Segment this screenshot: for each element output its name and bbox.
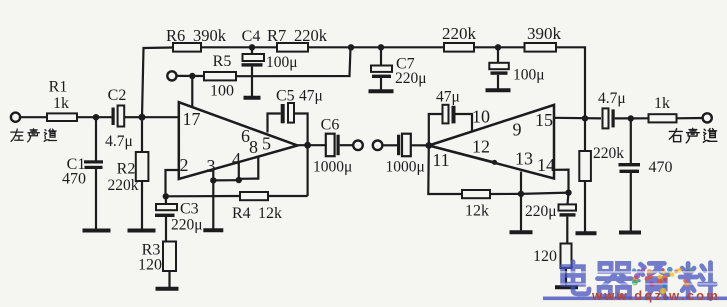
- watermark underline: [543, 297, 727, 301]
- label 220μ: [525, 203, 557, 220]
- label 470: [649, 159, 673, 176]
- pin label 8: [249, 137, 258, 157]
- node (junction): [565, 189, 571, 195]
- ground: [510, 230, 533, 234]
- pin label 2: [180, 155, 189, 175]
- wire: [177, 75, 205, 77]
- wire: [631, 117, 649, 119]
- ground: [203, 228, 223, 232]
- resistor 390k (supply): [525, 43, 557, 52]
- wire: [268, 145, 308, 196]
- node (junction): [249, 44, 255, 50]
- ground: [619, 231, 641, 235]
- svg-text:220k: 220k: [593, 145, 624, 162]
- svg-text:C5: C5: [276, 88, 295, 105]
- ground: [369, 89, 394, 93]
- svg-text:470: 470: [649, 159, 673, 176]
- resistor R6: [173, 43, 201, 52]
- watermark speckles: [632, 267, 691, 294]
- svg-text:1000μ: 1000μ: [386, 159, 425, 176]
- svg-text:R1: R1: [49, 79, 68, 96]
- wire: [294, 114, 308, 146]
- label 12k: [465, 203, 489, 220]
- wire: [428, 146, 462, 195]
- terminal: left channel input: [11, 113, 20, 122]
- node (junction): [495, 44, 501, 50]
- label 右声道 (right channel): [669, 128, 717, 143]
- capacitor C3: [155, 196, 177, 241]
- capacitor C4: [242, 47, 265, 96]
- terminal: right channel output: [373, 141, 383, 151]
- svg-text:www.dqzlw.com: www.dqzlw.com: [591, 288, 720, 303]
- resistor R4: [240, 192, 268, 200]
- capacitor 100μ (supply): [489, 47, 509, 88]
- wire: pin 4 stub: [238, 162, 240, 181]
- pin label 13: [515, 149, 533, 169]
- svg-text:100: 100: [210, 83, 234, 100]
- node (junction): [425, 142, 432, 149]
- pin label 1: [183, 109, 192, 129]
- svg-text:47μ: 47μ: [436, 89, 460, 106]
- label 1k: [654, 95, 670, 112]
- resistor 1k (right): [649, 114, 703, 122]
- svg-text:220k: 220k: [294, 26, 328, 45]
- svg-text:5: 5: [262, 134, 271, 154]
- pin label 3: [207, 156, 216, 176]
- label 100: [210, 83, 234, 100]
- capacitor C5: [281, 103, 294, 123]
- ground: [156, 287, 179, 291]
- wire: pin 2: [166, 170, 179, 196]
- svg-text:220μ: 220μ: [395, 70, 427, 87]
- svg-text:C3: C3: [180, 201, 199, 218]
- wire: [490, 193, 521, 195]
- wire: [298, 144, 326, 146]
- wire: pin 14: [554, 170, 569, 193]
- label 100μ: [513, 67, 545, 84]
- node (junction): [236, 177, 242, 183]
- label C2: [108, 87, 127, 104]
- label 220k: [593, 145, 624, 162]
- wire: [95, 117, 97, 160]
- pin label 14: [537, 155, 555, 175]
- svg-text:1k: 1k: [53, 95, 69, 112]
- svg-text:8: 8: [249, 137, 258, 157]
- svg-text:1k: 1k: [654, 95, 670, 112]
- capacitor C2: [112, 106, 141, 127]
- wire: [236, 47, 351, 76]
- svg-text:R2: R2: [117, 161, 136, 178]
- svg-text:2: 2: [180, 155, 189, 175]
- svg-text:1000μ: 1000μ: [313, 159, 352, 176]
- ground: [128, 229, 156, 233]
- node (junction): [163, 193, 169, 199]
- wire: [308, 46, 444, 48]
- label R1: [49, 79, 68, 96]
- label 4.7μ: [598, 90, 626, 107]
- node (junction): [189, 73, 195, 79]
- svg-text:220μ: 220μ: [171, 217, 203, 234]
- capacitor 1000μ (right): [397, 134, 429, 157]
- svg-text:15: 15: [535, 110, 553, 130]
- terminal: right channel input: [703, 113, 712, 122]
- capacitor 220μ (right): [559, 193, 577, 244]
- label C1: [67, 156, 86, 173]
- svg-text:12: 12: [472, 137, 490, 157]
- svg-text:R6: R6: [166, 26, 185, 45]
- node (junction): [378, 44, 384, 50]
- wire: [382, 144, 397, 146]
- wire: [521, 193, 569, 194]
- node (junction): [628, 115, 634, 121]
- label R3: [142, 242, 161, 259]
- label C7: [396, 56, 415, 73]
- svg-text:4.7μ: 4.7μ: [105, 133, 133, 150]
- svg-text:220μ: 220μ: [525, 203, 557, 220]
- svg-text:1: 1: [183, 109, 192, 129]
- svg-text:7: 7: [192, 109, 201, 129]
- pin label 11: [432, 150, 449, 170]
- label R5: [213, 53, 232, 70]
- resistor 120 (right): [561, 244, 572, 286]
- label 100μ: [266, 54, 298, 71]
- label 220k: [108, 177, 139, 194]
- label R7 220k: [267, 26, 328, 45]
- ground: [244, 96, 261, 100]
- svg-text:120: 120: [138, 257, 162, 274]
- resistor 12k (right): [462, 190, 490, 198]
- label C3: [180, 201, 199, 218]
- capacitor 4.7μ (right): [603, 108, 615, 128]
- wire: [142, 48, 173, 118]
- node (junction): [348, 44, 354, 50]
- label 470: [62, 171, 86, 188]
- wire: [142, 116, 179, 118]
- wire: [77, 116, 112, 118]
- ground: [576, 231, 597, 235]
- pin label 4: [232, 149, 241, 169]
- pin label 10: [472, 107, 490, 127]
- node A (junction): [93, 114, 99, 120]
- svg-text:47μ: 47μ: [299, 88, 323, 105]
- svg-text:100μ: 100μ: [266, 54, 298, 71]
- ground: [486, 88, 511, 92]
- label R2: [117, 161, 136, 178]
- svg-text:220k: 220k: [108, 177, 139, 194]
- label 1000μ: [386, 159, 425, 176]
- resistor R1: [47, 113, 77, 121]
- label 47μ: [436, 89, 460, 106]
- svg-text:4.7μ: 4.7μ: [598, 90, 626, 107]
- node (junction): [304, 142, 311, 149]
- wire: [556, 47, 585, 118]
- wire: [520, 194, 522, 231]
- op-amp A1 (pins 1-8): [179, 102, 298, 179]
- label C5 47μ: [276, 88, 323, 105]
- capacitor 470 (right): [619, 119, 641, 232]
- svg-text:390k: 390k: [527, 24, 562, 43]
- wire: [456, 114, 473, 132]
- label 220μ: [171, 217, 203, 234]
- label 120: [533, 248, 557, 265]
- svg-text:11: 11: [432, 150, 449, 170]
- wire: pin 13 stub: [520, 172, 522, 194]
- label 220μ: [395, 70, 427, 87]
- svg-text:C6: C6: [321, 117, 340, 134]
- resistor R2: [136, 117, 149, 229]
- svg-text:120: 120: [533, 248, 557, 265]
- wire: pin 15 output: [554, 117, 601, 120]
- terminal: left channel output: [353, 141, 363, 151]
- pin label 5: [262, 134, 271, 154]
- capacitor C7: [371, 47, 392, 89]
- svg-text:R4: R4: [232, 205, 251, 222]
- svg-text:13: 13: [515, 149, 533, 169]
- capacitor C1: [84, 160, 103, 229]
- terminal: supply input: [167, 71, 176, 80]
- ground: [555, 285, 578, 289]
- wire: [268, 114, 281, 133]
- wire: [615, 117, 631, 119]
- label 120: [138, 257, 162, 274]
- label C6: [321, 117, 340, 134]
- resistor 220k (supply): [444, 43, 474, 52]
- wire: [166, 195, 240, 198]
- node (junction): [210, 177, 216, 183]
- svg-text:R5: R5: [213, 53, 232, 70]
- pin label 9: [513, 120, 522, 140]
- wire: [429, 114, 443, 146]
- svg-text:14: 14: [537, 155, 555, 175]
- capacitor C6: [326, 134, 353, 157]
- wire: [213, 179, 239, 181]
- resistor 220k (right): [579, 118, 591, 231]
- svg-text:C4: C4: [242, 28, 261, 45]
- node (junction): [582, 115, 588, 121]
- svg-text:C2: C2: [108, 87, 127, 104]
- wire: [20, 116, 47, 118]
- pin label 7: [192, 109, 201, 129]
- capacitor 47μ (right): [443, 105, 456, 124]
- watermark scan stripes: [548, 271, 726, 285]
- resistor R5: [204, 72, 236, 80]
- wire: pin 1 stub: [191, 76, 193, 107]
- pin label 6: [241, 126, 250, 146]
- svg-text:R7: R7: [267, 26, 286, 45]
- wire: [201, 46, 277, 48]
- op-amp A2 (pins 9-15): [429, 105, 554, 179]
- resistor R3: [163, 242, 176, 288]
- svg-text:470: 470: [62, 171, 86, 188]
- wire: pin 3 stub: [212, 169, 214, 180]
- svg-text:100μ: 100μ: [513, 67, 545, 84]
- ground: [83, 229, 111, 233]
- wire: pins 8-5 link: [239, 156, 258, 179]
- label R4 12k: [232, 205, 282, 222]
- watermark 电器资料: [563, 262, 716, 299]
- svg-text:12k: 12k: [258, 205, 282, 222]
- svg-text:10: 10: [472, 107, 490, 127]
- label C4: [242, 28, 261, 45]
- label 1000μ: [313, 159, 352, 176]
- label 4.7μ: [105, 133, 133, 150]
- svg-text:220k: 220k: [442, 24, 477, 43]
- pin label 12: [472, 137, 490, 157]
- resistor R7: [277, 43, 308, 52]
- wire: [212, 180, 214, 228]
- pin label 15: [535, 110, 553, 130]
- node B (junction): [139, 114, 146, 121]
- label 1k: [53, 95, 69, 112]
- label R6 390k: [166, 26, 227, 45]
- svg-text:12k: 12k: [465, 203, 489, 220]
- svg-text:9: 9: [513, 120, 522, 140]
- wire: [474, 46, 525, 48]
- wire: pin 12 input line: [429, 146, 497, 165]
- label 左声道 (left channel): [11, 129, 57, 142]
- label 220k: [442, 24, 477, 43]
- node (junction): [518, 191, 524, 197]
- svg-text:390k: 390k: [193, 26, 227, 45]
- label 390k: [527, 24, 562, 43]
